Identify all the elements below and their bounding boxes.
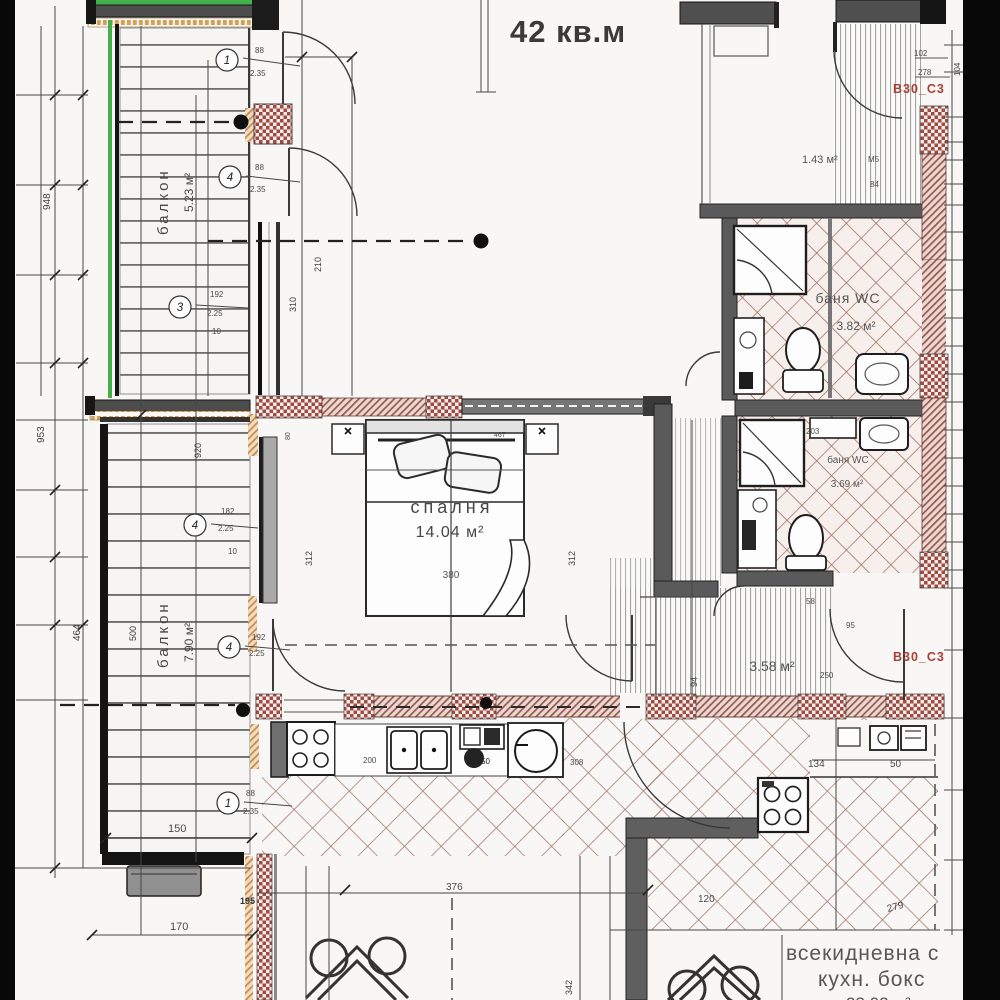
svg-text:58: 58 (806, 597, 815, 606)
svg-text:80: 80 (285, 432, 292, 440)
circle marker 3 (169, 296, 191, 318)
svg-text:спалня: спалня (411, 497, 494, 517)
svg-text:В30_С3: В30_С3 (893, 82, 945, 96)
svg-text:467: 467 (494, 432, 506, 439)
svg-text:500: 500 (128, 626, 138, 641)
right wall hatch seg A (922, 154, 946, 260)
balcony 1 right edge line (248, 28, 250, 394)
dashed centerline balcony1 upper (118, 121, 232, 123)
svg-text:200: 200 (363, 756, 377, 765)
bed pillow left (392, 433, 453, 480)
door arc bathroom 2 (714, 586, 744, 616)
section dot a (234, 115, 249, 130)
dim vertical x196 (195, 95, 197, 862)
entry corner black block (920, 0, 946, 24)
balcony 1 top orange insulation strip (88, 18, 264, 27)
dim vertical x610 low (609, 856, 611, 1000)
svg-text:170: 170 (170, 921, 188, 933)
svg-text:3.58 м²: 3.58 м² (749, 658, 795, 674)
dim horizontal 134-50 (812, 759, 935, 761)
door leaf balcony top (282, 32, 284, 104)
corner pier top-right black (252, 0, 279, 30)
svg-text:310: 310 (288, 297, 298, 312)
toilet 2 (789, 515, 823, 561)
circle marker mid (184, 514, 206, 536)
dim vertical x352 (351, 56, 353, 396)
orange corner strip below band (248, 414, 258, 456)
dim horizontal 170 (92, 934, 253, 936)
svg-text:192: 192 (210, 290, 224, 299)
svg-text:23.02 м²: 23.02 м² (846, 994, 911, 1000)
svg-text:1: 1 (225, 798, 231, 810)
door arc living (624, 722, 730, 828)
threshold striped nook (610, 558, 654, 598)
svg-text:5.23 м²: 5.23 м² (182, 173, 196, 212)
svg-text:1: 1 (224, 55, 230, 67)
checkered strip bottom-left (257, 854, 272, 1000)
svg-text:3.69 м²: 3.69 м² (831, 479, 864, 490)
svg-text:2.25: 2.25 (218, 524, 234, 533)
window balcony1/bedroom center line (268, 222, 270, 395)
bathroom partition line (828, 218, 832, 398)
svg-text:всекидневна с: всекидневна с (786, 942, 939, 965)
nightstand left (332, 424, 364, 454)
right wall hatch seg C (922, 398, 946, 554)
dim vertical x329 low (328, 866, 330, 1000)
dim vertical x83 (82, 26, 84, 868)
living tile floor right (648, 718, 938, 930)
checkered wall block upper (254, 104, 292, 144)
bed pillow right (444, 451, 503, 494)
dim small top (285, 56, 352, 58)
round basin (508, 723, 563, 777)
svg-text:2.35: 2.35 (250, 69, 266, 78)
svg-text:1.43 м²: 1.43 м² (802, 154, 838, 166)
bathroom 1 tile floor (737, 218, 923, 400)
svg-text:376: 376 (446, 882, 463, 893)
small fixture left of counter (838, 728, 860, 746)
svg-text:192: 192 (252, 633, 266, 642)
door jamb left of entry (774, 2, 779, 28)
svg-text:380: 380 (443, 570, 460, 581)
svg-text:134: 134 (808, 759, 825, 770)
svg-text:4: 4 (226, 642, 232, 654)
hall left edge line (655, 598, 657, 698)
door arc balcony mid (289, 148, 357, 216)
svg-text:балкон: балкон (155, 168, 172, 235)
wall south of bedroom door (654, 581, 718, 597)
balcony 1 top green rail (94, 0, 262, 5)
vent shaft box (714, 26, 768, 56)
dim vertical x580 low (579, 856, 581, 1000)
svg-text:88: 88 (246, 789, 255, 798)
bedroom east wall (654, 404, 672, 584)
vanity cabinet 1 (734, 318, 764, 394)
wall between bathrooms (735, 400, 925, 416)
toilet 1 (786, 328, 820, 372)
svg-text:14.04 м²: 14.04 м² (416, 524, 485, 541)
bathroom 1 west wall (722, 218, 737, 400)
dim vertical x836 (835, 718, 837, 930)
bedroom top wall checker left (256, 396, 322, 418)
balcony 1 green left rail (108, 20, 112, 398)
balcony 1 top wall (90, 5, 262, 17)
svg-text:203: 203 (806, 427, 820, 436)
door arc entry (834, 50, 902, 118)
dashed line balcony2 bottom (60, 704, 235, 706)
svg-text:312: 312 (567, 551, 577, 566)
washer box 2 (810, 418, 856, 438)
kitchen tile floor (262, 776, 564, 856)
wall band checker seg 5 (798, 694, 846, 719)
main wall band hatch (256, 696, 944, 717)
door arc balcony top (283, 32, 355, 104)
living tile floor mid (562, 718, 662, 856)
wall band checker seg 2 (344, 694, 374, 719)
svg-text:210: 210 (313, 257, 323, 272)
svg-text:баня WC: баня WC (815, 290, 880, 306)
svg-text:312: 312 (304, 551, 314, 566)
wall band checker seg 4 (646, 694, 696, 719)
svg-text:3: 3 (177, 302, 184, 314)
wall band checker seg 3 (452, 694, 496, 719)
svg-text:2.35: 2.35 (250, 185, 266, 194)
svg-text:2.25: 2.25 (249, 649, 265, 658)
section dot b (474, 234, 489, 249)
wall band door gap left (bedroom door) (282, 693, 344, 719)
wall band checker seg 6 (886, 694, 944, 719)
fridge gray box (271, 722, 288, 777)
svg-text:10: 10 (212, 327, 221, 336)
balcony 1 bottom wall (88, 400, 250, 411)
svg-text:88: 88 (255, 46, 264, 55)
svg-text:50: 50 (890, 759, 902, 770)
svg-text:278: 278 (918, 68, 932, 77)
svg-text:102: 102 (914, 49, 928, 58)
dim horizontal y868 (14, 867, 250, 869)
table group right (668, 956, 760, 1000)
dashed centerline bedroom (285, 644, 655, 646)
right wall checker seg C (920, 552, 948, 588)
bathroom 1 north wall (700, 204, 923, 218)
dark circle unit (464, 748, 484, 768)
svg-text:953: 953 (36, 426, 47, 443)
bed blanket fold (483, 540, 530, 616)
dim vertical x306 low (305, 866, 307, 1000)
kitchen counter outline (335, 724, 563, 776)
right wall hatch seg B (922, 260, 946, 356)
svg-text:182: 182 (221, 507, 235, 516)
svg-text:948: 948 (42, 193, 53, 210)
living room L wall horizontal (626, 818, 758, 838)
wall band gap mid (620, 693, 646, 719)
bed outline (366, 420, 524, 616)
bedroom window band right dark block (643, 396, 671, 416)
window balcony1/bedroom right line (276, 222, 280, 395)
svg-text:балкон: балкон (155, 601, 172, 668)
entry top wall (836, 0, 922, 22)
right wall checker seg B (920, 354, 948, 398)
bedroom top wall hatch (322, 398, 426, 416)
dim horizontal 150 (106, 837, 252, 839)
door arc bathroom small (686, 352, 720, 386)
left black bar (0, 0, 15, 1000)
svg-text:баня WC: баня WC (827, 454, 868, 466)
right margin dimension ladder (944, 30, 964, 935)
balcony 2 west wall (100, 424, 108, 854)
hallway striped floor (610, 588, 832, 698)
svg-text:7.90 м²: 7.90 м² (182, 623, 196, 662)
bathroom 2 tile floor (737, 416, 923, 573)
entrance hall striped floor (833, 24, 921, 204)
bedroom window band dashed centerline (465, 405, 643, 407)
stove living (758, 778, 808, 832)
svg-text:95: 95 (846, 621, 855, 630)
dashed vertical bottom (451, 898, 453, 1000)
dim vertical x141 (140, 26, 142, 935)
bedroom west window lower left line (259, 437, 263, 603)
washbasin 2 (860, 418, 908, 450)
door arc bedroom left (273, 619, 345, 691)
corridor striped floor (674, 418, 722, 586)
dim vertical x41 (40, 26, 42, 396)
bathroom 2 west wall (722, 416, 737, 573)
dashed centerline balcony1 lower (208, 240, 470, 242)
svg-text:250: 250 (820, 671, 834, 680)
dim vertical x55 (54, 6, 56, 878)
dim vertical x692 (691, 420, 693, 698)
living room L wall vertical (626, 838, 647, 1000)
section dot d (480, 697, 492, 709)
door arc bedroom right (566, 615, 632, 681)
bedroom west window lower fill (263, 437, 277, 603)
dashed vertical living right (934, 724, 936, 930)
window balcony1/bedroom left line (258, 222, 262, 395)
svg-text:4: 4 (227, 172, 233, 184)
svg-text:10: 10 (228, 547, 237, 556)
gray line beside checkered strip (274, 854, 277, 1000)
svg-text:920: 920 (193, 443, 203, 458)
svg-text:88: 88 (255, 163, 264, 172)
hall top boundary line (640, 596, 718, 598)
kitchen orange strip (250, 724, 259, 769)
dim vertical x302 (301, 0, 303, 396)
balcony 1 deck floor (120, 28, 250, 394)
svg-text:50: 50 (481, 757, 490, 766)
balcony 2 top boundary (100, 417, 250, 422)
svg-text:3.82 м²: 3.82 м² (837, 319, 876, 333)
leader circle 1 (243, 58, 300, 66)
circle marker 1 low (217, 792, 239, 814)
wall band checker seg 1 (256, 694, 282, 719)
slash ticks (50, 52, 653, 940)
counter box 2 (901, 726, 926, 750)
bedroom window band (462, 399, 646, 414)
svg-text:342: 342 (564, 980, 574, 995)
balcony 2 planter box (127, 866, 201, 896)
balcony 2 deck floor (107, 424, 250, 854)
counter edge (810, 776, 938, 778)
orange strip bottom-left (245, 856, 253, 1000)
bedroom top wall checker right (426, 396, 462, 418)
small unit with taps (460, 725, 504, 749)
shower 2 (740, 420, 804, 486)
bathroom 2 south wall (737, 571, 833, 586)
bed blanket line (366, 501, 524, 503)
double sink (387, 727, 451, 773)
svg-text:104: 104 (953, 62, 962, 76)
balcony 1 bottom orange strip (90, 411, 250, 420)
right black bar (963, 0, 1000, 1000)
circle marker 1 top (216, 49, 238, 71)
kitchenette counter white area (810, 720, 938, 777)
svg-text:М5: М5 (868, 155, 880, 164)
svg-text:кухн. бокс: кухн. бокс (818, 968, 925, 991)
balcony 1 left wall line (115, 24, 119, 396)
shower 1 (734, 226, 806, 294)
table group left (306, 938, 408, 1000)
svg-text:120: 120 (698, 894, 715, 905)
balcony 2 south wall (102, 852, 244, 865)
door arc hall (830, 609, 903, 682)
corner pier top-left (86, 0, 96, 24)
section dot c (236, 703, 250, 717)
left ticks horizontals (16, 94, 88, 96)
door jamb at entry (833, 22, 837, 52)
cabinet 2 (738, 490, 776, 568)
svg-text:В30_С3: В30_С3 (893, 650, 945, 664)
wall band dashed centerline (350, 706, 640, 708)
bed centerline (450, 420, 452, 692)
dim horizontal bottom right (610, 929, 940, 931)
svg-text:42 кв.м: 42 кв.м (510, 14, 626, 49)
svg-text:464: 464 (72, 624, 83, 641)
door leaf balcony mid (288, 148, 290, 216)
washbasin 1 (856, 354, 908, 394)
top wall over bathroom (680, 2, 776, 24)
dim vertical x208 (207, 60, 209, 396)
svg-text:308: 308 (570, 758, 584, 767)
svg-text:2.35: 2.35 (243, 807, 259, 816)
counter box 1 (870, 726, 898, 750)
svg-text:195: 195 (240, 896, 255, 906)
duct lines (701, 24, 703, 204)
orange strip lower (248, 596, 257, 652)
right wall checker seg A (920, 106, 948, 154)
svg-text:2.25: 2.25 (207, 309, 223, 318)
balcony 1 bottom wall left cap (85, 396, 95, 415)
orange strip beside checker block (245, 108, 254, 142)
svg-text:84: 84 (870, 180, 879, 189)
svg-text:150: 150 (168, 823, 186, 835)
svg-text:94: 94 (689, 677, 699, 687)
svg-text:4: 4 (192, 520, 198, 532)
circle marker 4 low (218, 636, 240, 658)
circle marker 4 top (219, 166, 241, 188)
nightstand right (526, 424, 558, 454)
stove (287, 722, 335, 775)
dim horizontal 376 (258, 892, 648, 894)
